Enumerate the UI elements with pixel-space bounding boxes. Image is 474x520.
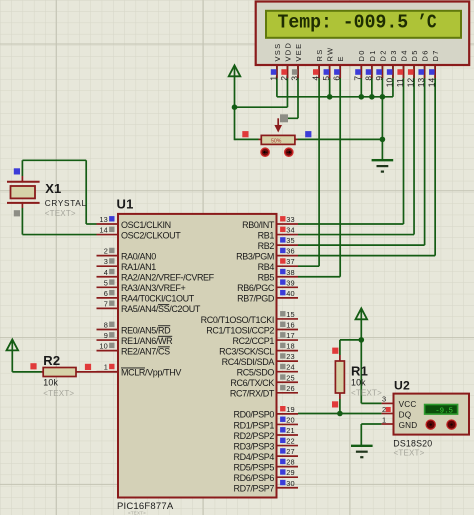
svg-text:9: 9 — [374, 76, 384, 81]
junction — [327, 94, 333, 100]
wire — [11, 350, 13, 372]
svg-text:15: 15 — [286, 310, 295, 319]
svg-text:RC5/SDO: RC5/SDO — [237, 368, 275, 378]
svg-text:CRYSTAL: CRYSTAL — [45, 199, 87, 208]
svg-text:21: 21 — [286, 426, 295, 435]
svg-text:DS18S20: DS18S20 — [393, 438, 432, 448]
svg-text:D6: D6 — [421, 49, 430, 61]
wire U2 GND — [361, 423, 381, 425]
svg-text:RA2/AN2/VREF-/CVREF: RA2/AN2/VREF-/CVREF — [121, 273, 215, 283]
svg-text:11: 11 — [395, 78, 405, 87]
svg-text:RC4/SDI/SDA: RC4/SDI/SDA — [222, 357, 275, 367]
svg-text:RB5: RB5 — [258, 273, 275, 283]
wire — [298, 138, 383, 140]
svg-text:25: 25 — [286, 373, 295, 382]
svg-text:MCLR/Vpp/THV: MCLR/Vpp/THV — [121, 368, 181, 378]
svg-text:13: 13 — [416, 78, 426, 88]
wire — [360, 319, 362, 403]
svg-text:RD5/PSP5: RD5/PSP5 — [234, 462, 275, 472]
svg-text:18: 18 — [286, 342, 295, 351]
svg-text:Temp: -009.5: Temp: -009.5 — [278, 11, 409, 33]
svg-text:RA4/T0CKI/C1OUT: RA4/T0CKI/C1OUT — [121, 294, 195, 304]
wire — [286, 66, 288, 107]
svg-text:RW: RW — [326, 47, 335, 62]
resistor R1 — [339, 355, 341, 361]
microcontroller U1 PIC16F877A — [118, 214, 277, 498]
svg-text:39: 39 — [286, 278, 295, 287]
svg-text:35: 35 — [286, 236, 295, 245]
svg-text:17: 17 — [286, 331, 295, 340]
svg-text:RC2/CCP1: RC2/CCP1 — [233, 336, 275, 346]
svg-text:VSS: VSS — [273, 43, 282, 62]
svg-text:’C: ’C — [417, 11, 437, 33]
svg-text:VCC: VCC — [399, 400, 417, 409]
LCD pin stubs — [276, 65, 278, 78]
svg-text:2: 2 — [104, 247, 108, 256]
power symbol VDD (R1) — [356, 308, 368, 319]
svg-text:26: 26 — [286, 384, 295, 393]
wire DQ — [298, 413, 382, 415]
svg-text:12: 12 — [405, 78, 415, 88]
wire to U2 VCC — [361, 402, 381, 404]
wire VEE — [297, 66, 299, 118]
svg-text:<TEXT>: <TEXT> — [128, 511, 146, 516]
svg-text:6: 6 — [332, 76, 342, 81]
ground (U2) — [351, 445, 373, 447]
svg-text:GND: GND — [399, 421, 418, 430]
svg-text:5: 5 — [321, 76, 331, 81]
svg-text:3: 3 — [289, 76, 299, 81]
svg-text:RD6/PSP6: RD6/PSP6 — [234, 473, 275, 483]
svg-text:RC6/TX/CK: RC6/TX/CK — [230, 378, 274, 388]
svg-text:D0: D0 — [357, 49, 366, 61]
wire OSC1 — [22, 159, 86, 161]
junction — [380, 94, 386, 100]
junction — [380, 137, 386, 143]
svg-text:23: 23 — [286, 352, 295, 361]
ground (LCD) — [372, 159, 394, 161]
wire LCD pin 6 to PIC — [339, 66, 341, 277]
svg-text:D1: D1 — [368, 49, 377, 61]
svg-text:RC3/SCK/SCL: RC3/SCK/SCL — [219, 346, 274, 356]
svg-text:OSC2/CLKOUT: OSC2/CLKOUT — [121, 230, 181, 240]
svg-text:3: 3 — [104, 257, 108, 266]
wire R2 to MCLR — [76, 371, 118, 373]
wire — [235, 106, 288, 108]
svg-text:R2: R2 — [43, 353, 60, 368]
R2 markers — [30, 363, 36, 369]
svg-text:8: 8 — [363, 76, 373, 81]
svg-text:4: 4 — [311, 76, 321, 81]
svg-text:37: 37 — [286, 257, 295, 266]
U2 display — [425, 405, 458, 415]
wire OSC2 — [21, 208, 23, 235]
svg-text:1: 1 — [268, 76, 278, 81]
svg-text:10: 10 — [99, 342, 108, 351]
svg-text:X1: X1 — [45, 181, 61, 196]
svg-text:24: 24 — [286, 363, 295, 372]
temperature sensor U2 DS18S20 — [394, 394, 470, 435]
svg-text:1: 1 — [382, 415, 386, 424]
svg-text:D2: D2 — [378, 49, 387, 61]
svg-text:RB6/PGC: RB6/PGC — [237, 283, 275, 293]
svg-text:20: 20 — [286, 415, 295, 424]
svg-text:RC7/RX/DT: RC7/RX/DT — [230, 389, 275, 399]
svg-text:RE2/AN7/CS: RE2/AN7/CS — [121, 346, 170, 356]
junction — [359, 337, 365, 343]
svg-text:3: 3 — [382, 395, 386, 404]
svg-text:7: 7 — [353, 76, 363, 81]
svg-text:RD0/PSP0: RD0/PSP0 — [234, 410, 275, 420]
svg-text:<TEXT>: <TEXT> — [43, 389, 74, 398]
svg-text:RD3/PSP3: RD3/PSP3 — [234, 441, 275, 451]
svg-text:14: 14 — [427, 78, 437, 88]
svg-text:4: 4 — [104, 268, 108, 277]
svg-text:<TEXT>: <TEXT> — [394, 449, 425, 458]
wire LCD pin 11 to PIC — [403, 66, 405, 224]
svg-text:D5: D5 — [410, 49, 419, 61]
U1 right pins — [277, 223, 299, 225]
svg-text:1: 1 — [104, 363, 108, 372]
wire ground drop — [381, 97, 383, 160]
svg-text:19: 19 — [286, 405, 295, 414]
svg-text:D7: D7 — [431, 49, 440, 61]
svg-text:36: 36 — [286, 247, 295, 256]
svg-text:U2: U2 — [394, 378, 410, 392]
power symbol VDD (LCD) — [229, 65, 241, 76]
svg-text:RA1/AN1: RA1/AN1 — [121, 262, 156, 272]
svg-text:13: 13 — [99, 215, 108, 224]
junction — [337, 411, 343, 417]
svg-text:<TEXT>: <TEXT> — [351, 389, 382, 398]
svg-text:RB1: RB1 — [258, 230, 275, 240]
svg-text:R1: R1 — [351, 364, 368, 379]
svg-text:RD7/PSP7: RD7/PSP7 — [234, 484, 275, 494]
pot markers — [242, 131, 248, 137]
svg-text:RD4/PSP4: RD4/PSP4 — [234, 452, 275, 462]
svg-text:30: 30 — [286, 479, 295, 488]
svg-text:DQ: DQ — [399, 411, 412, 420]
svg-text:RB4: RB4 — [258, 262, 275, 272]
svg-text:VDD: VDD — [283, 42, 292, 62]
svg-text:2: 2 — [382, 405, 386, 414]
svg-text:10: 10 — [384, 78, 394, 88]
wire — [12, 371, 41, 373]
wire LCD pin 4 to PIC — [318, 66, 320, 266]
svg-text:-9.5: -9.5 — [435, 407, 453, 415]
LCD display module — [256, 2, 470, 66]
crystal X1 — [7, 181, 40, 183]
svg-text:RB0/INT: RB0/INT — [242, 220, 275, 230]
crystal markers — [14, 168, 20, 174]
junction — [369, 94, 375, 100]
svg-text:28: 28 — [286, 458, 295, 467]
svg-text:D4: D4 — [399, 49, 408, 61]
svg-text:RD2/PSP2: RD2/PSP2 — [234, 431, 275, 441]
svg-text:OSC1/CLKIN: OSC1/CLKIN — [121, 220, 171, 230]
svg-text:RC1/T1OSI/CCP2: RC1/T1OSI/CCP2 — [206, 325, 274, 335]
svg-text:27: 27 — [286, 447, 295, 456]
pot stubs — [259, 138, 262, 140]
svg-text:RS: RS — [315, 48, 324, 61]
svg-text:16: 16 — [286, 321, 295, 330]
svg-text:D3: D3 — [389, 49, 398, 61]
svg-text:38: 38 — [286, 268, 295, 277]
svg-text:5: 5 — [104, 278, 108, 287]
wire — [235, 138, 259, 140]
svg-text:14: 14 — [99, 226, 108, 235]
svg-text:7: 7 — [104, 299, 108, 308]
wire — [234, 76, 236, 140]
svg-text:U1: U1 — [117, 197, 134, 212]
LCD pin state squares — [271, 69, 277, 75]
svg-text:RE0/AN5/RD: RE0/AN5/RD — [121, 325, 171, 335]
svg-text:9: 9 — [104, 331, 108, 340]
svg-text:50%: 50% — [271, 139, 282, 145]
svg-text:RD1/PSP1: RD1/PSP1 — [234, 420, 275, 430]
potentiometer RV1 — [261, 135, 295, 144]
U2 leds — [426, 420, 435, 429]
junction — [232, 104, 238, 110]
pot wiper wire — [277, 118, 279, 126]
svg-text:RE1/AN6/WR: RE1/AN6/WR — [121, 336, 173, 346]
wire R1 bottom — [339, 399, 341, 414]
resistor R2 — [42, 371, 44, 373]
svg-text:33: 33 — [286, 215, 295, 224]
wire LCD pin 14 to PIC — [434, 66, 436, 256]
wire to R1 top — [340, 339, 361, 341]
junction — [359, 94, 365, 100]
svg-text:RA3/AN3/VREF+: RA3/AN3/VREF+ — [121, 283, 185, 293]
svg-text:RB7/PGD: RB7/PGD — [237, 294, 275, 304]
pot buttons — [261, 148, 269, 156]
node marker — [280, 114, 288, 122]
svg-text:8: 8 — [104, 321, 108, 330]
U1 left pins — [97, 223, 119, 225]
svg-text:29: 29 — [286, 468, 295, 477]
svg-text:RA0/AN0: RA0/AN0 — [121, 251, 156, 261]
svg-text:RB3/PGM: RB3/PGM — [236, 251, 274, 261]
svg-text:VEE: VEE — [294, 43, 303, 62]
R1 markers — [332, 348, 338, 354]
svg-text:<TEXT>: <TEXT> — [45, 209, 76, 218]
power symbol VDD (R2) — [7, 339, 19, 350]
wire LCD pin 13 to PIC — [424, 66, 426, 245]
svg-text:6: 6 — [104, 289, 108, 298]
svg-text:22: 22 — [286, 437, 295, 446]
svg-text:RC0/T1OSO/T1CKI: RC0/T1OSO/T1CKI — [201, 315, 274, 325]
svg-text:10k: 10k — [43, 377, 58, 387]
wire VSS ground bus — [276, 66, 278, 97]
svg-text:34: 34 — [286, 226, 295, 235]
svg-text:RB2: RB2 — [258, 241, 275, 251]
svg-text:40: 40 — [286, 289, 295, 298]
wire LCD pin 12 to PIC — [413, 66, 415, 235]
svg-text:10k: 10k — [351, 378, 366, 388]
svg-text:2: 2 — [279, 76, 289, 81]
svg-text:RA5/AN4/SS/C2OUT: RA5/AN4/SS/C2OUT — [121, 304, 201, 314]
svg-text:E: E — [336, 55, 345, 61]
